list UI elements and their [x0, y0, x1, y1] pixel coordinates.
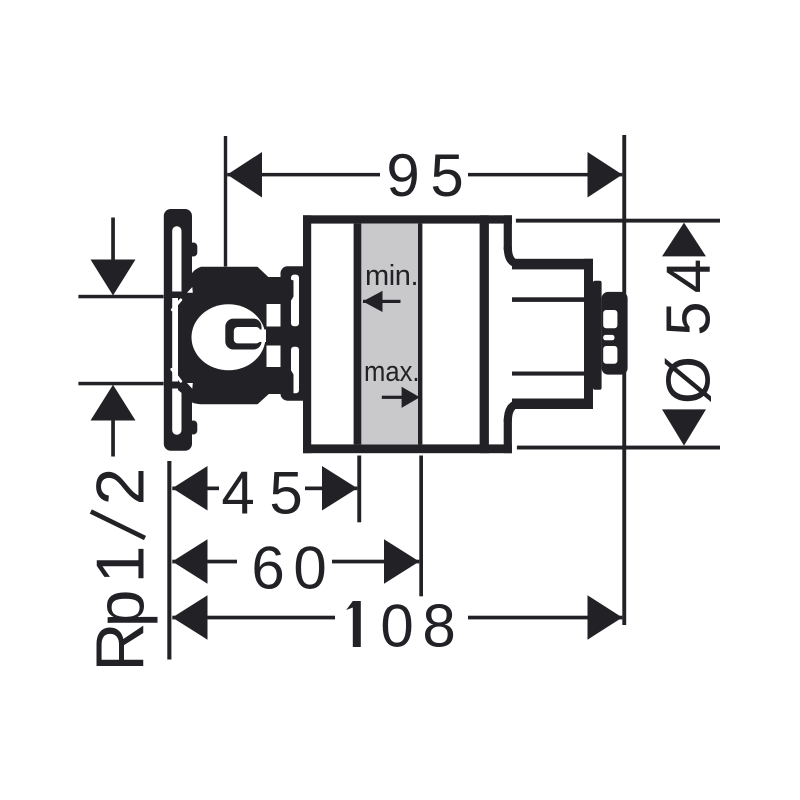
spindle groove — [603, 335, 614, 340]
small cylinder bottom edge — [512, 399, 593, 410]
spindle block — [602, 292, 628, 375]
svg-text:8: 8 — [422, 593, 455, 660]
flange upper slot — [291, 275, 299, 327]
spindle notch upper — [603, 310, 617, 328]
diameter 54 top arrow (up) — [662, 223, 706, 257]
dimension 108 left arrow — [172, 595, 207, 640]
svg-text:min.: min. — [365, 260, 419, 292]
svg-text:0: 0 — [380, 593, 413, 660]
dimension 95 right arrow — [588, 152, 623, 198]
svg-text:5: 5 — [430, 142, 463, 209]
dimension 60 left arrow — [172, 539, 207, 584]
svg-text:Ø: Ø — [655, 356, 724, 404]
divider bar left of gray band — [354, 224, 362, 445]
dimension 45 left arrow — [172, 466, 207, 511]
svg-text:2: 2 — [83, 468, 159, 506]
diameter 54 bottom extension line — [517, 446, 720, 450]
gray band right edge line — [418, 224, 422, 445]
diameter 54 top extension line — [516, 219, 720, 223]
dimension 95 right extension line — [622, 135, 626, 625]
flange lower slot — [291, 347, 299, 393]
valve body — [178, 267, 291, 404]
white scratch upper — [172, 300, 181, 310]
cap bar top — [504, 215, 512, 250]
left pipe dimension bottom arrow (up) — [91, 385, 136, 421]
valve body lower ear — [267, 367, 294, 394]
svg-text:4: 4 — [221, 460, 254, 527]
left pipe dimension top arrow (down) — [91, 260, 136, 296]
flange body — [281, 266, 312, 400]
svg-text:5: 5 — [655, 301, 724, 335]
dimension 95 left extension line — [224, 136, 227, 267]
cap top elbow — [508, 247, 520, 264]
small cylinder right edge — [584, 259, 593, 409]
wall plate slot — [172, 226, 181, 434]
svg-text:5: 5 — [269, 460, 302, 527]
dimension 95 line — [227, 173, 380, 177]
slot crossing band upper — [171, 292, 182, 299]
main body bottom edge — [303, 444, 512, 453]
dimension 108 line — [172, 616, 335, 620]
wall plate upper bump — [189, 243, 197, 257]
spindle notch hole — [234, 327, 260, 343]
small cylinder inner line upper — [512, 297, 584, 302]
white corner wedge upper — [187, 287, 193, 293]
dimension 60 right arrow — [384, 539, 419, 584]
svg-text:1: 1 — [83, 546, 159, 584]
dimension 108 right arrow — [588, 595, 623, 640]
cap bottom elbow — [508, 404, 520, 422]
spindle notch — [225, 319, 261, 350]
gray depth band — [361, 224, 418, 445]
left pipe dimension bottom tail — [111, 420, 115, 457]
diameter 54 bottom arrow (down) — [662, 409, 706, 445]
valve bore circle — [192, 304, 266, 370]
svg-text:4: 4 — [655, 259, 724, 293]
main body left edge — [303, 215, 311, 453]
svg-text:9: 9 — [386, 142, 419, 209]
collar strip — [593, 281, 602, 390]
white corner wedge lower — [187, 383, 193, 389]
left pipe dimension bottom extension line — [78, 382, 163, 386]
left pipe dimension top tail — [111, 218, 115, 262]
dimension 45 right arrow — [322, 466, 357, 511]
valve body upper ear — [267, 277, 294, 304]
min arrow — [363, 300, 401, 303]
max arrow — [382, 396, 403, 399]
dimension 45 extension line right — [357, 456, 361, 523]
wall plate — [164, 209, 192, 451]
cap bar bottom — [504, 419, 512, 454]
left pipe dimension top extension line — [78, 295, 163, 299]
dimension 60 extension line right — [419, 456, 423, 597]
wall plate lower bump — [189, 421, 197, 435]
white scratch lower — [172, 369, 181, 381]
small cylinder top edge — [512, 259, 593, 270]
dimension 45 extension line left — [167, 461, 171, 660]
svg-text:p: p — [83, 590, 159, 628]
dimension 95 left arrow — [227, 152, 262, 198]
svg-text:6: 6 — [251, 535, 284, 602]
svg-text:max.: max. — [364, 356, 420, 388]
svg-text:R: R — [83, 622, 159, 671]
spindle notch lower — [603, 346, 617, 364]
dimension 45 line — [172, 487, 219, 491]
svg-text:0: 0 — [293, 535, 326, 602]
small cylinder inner line lower — [512, 372, 584, 376]
dimension 108 label — [346, 601, 361, 647]
slot crossing band lower — [171, 382, 182, 389]
main body right edge — [480, 215, 489, 453]
main body top edge — [303, 215, 512, 223]
dimension 60 line — [172, 560, 237, 564]
